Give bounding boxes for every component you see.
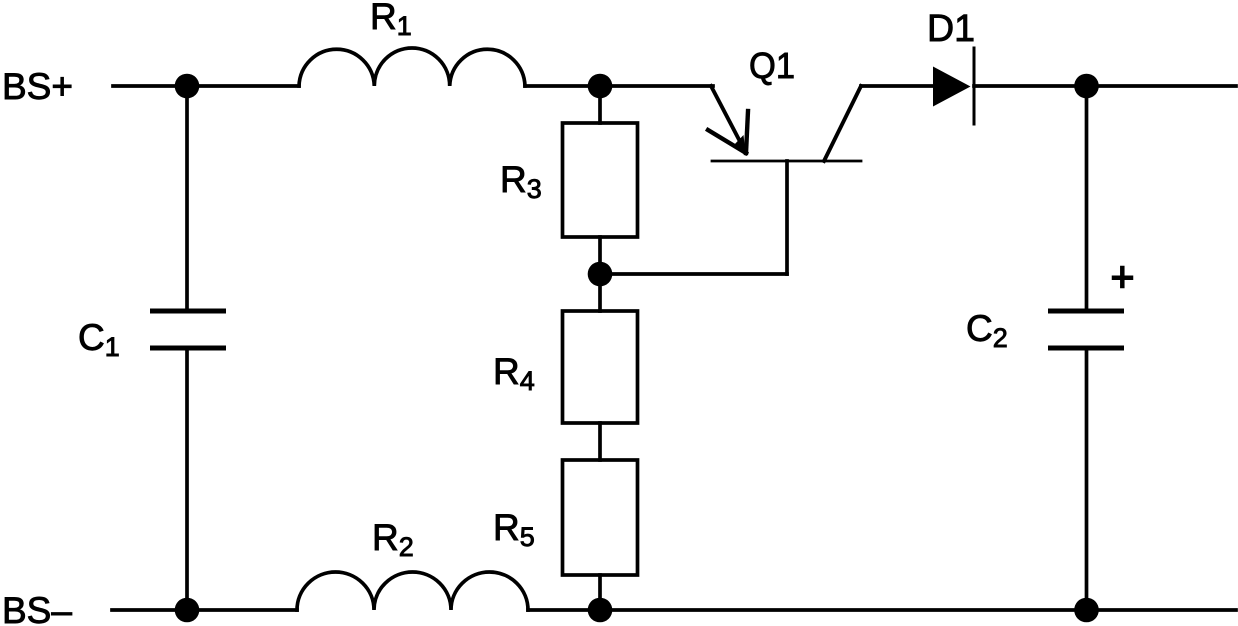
wire diode to right edge [974, 84, 1236, 88]
wire R3 to R4 [598, 237, 602, 311]
node bottom-left junction [175, 598, 200, 623]
resistor R2 (coil symbol) [297, 572, 528, 610]
node top middle junction [588, 74, 613, 99]
capacitor C2 [1048, 309, 1124, 314]
svg-text:D1: D1 [927, 8, 975, 50]
resistor R5 [563, 460, 638, 575]
wire C1 branch upper [185, 86, 189, 311]
svg-text:Q1: Q1 [749, 45, 795, 86]
wire C1 branch lower [185, 348, 189, 610]
transistor Q1 base bar [712, 160, 861, 163]
wire base vertical [785, 161, 789, 274]
node R3-R4 junction [588, 262, 613, 287]
wire bottom rail right segment [528, 608, 1236, 612]
polarity plus sign for C2 [1114, 276, 1131, 281]
wire base horizontal [600, 272, 787, 276]
node bottom right junction [1074, 598, 1099, 623]
node bottom middle junction [588, 598, 613, 623]
capacitor C1 [150, 309, 226, 314]
node top right junction [1074, 74, 1099, 99]
transistor Q1 arrowhead barb left [708, 130, 746, 153]
diode D1 anode triangle [933, 67, 971, 107]
wire top rail left segment [113, 84, 299, 88]
wire node to R3 [598, 86, 602, 123]
transistor Q1 arrowhead barb upper [746, 111, 748, 153]
svg-text:R5: R5 [493, 507, 535, 552]
transistor Q1 collector shaft [711, 86, 746, 153]
svg-text:C2: C2 [966, 308, 1008, 353]
wire R5 to bottom rail [598, 575, 602, 610]
resistor R1 (coil symbol) [299, 48, 525, 86]
svg-text:R4: R4 [493, 351, 535, 396]
node top-left junction [175, 74, 200, 99]
wire C2 branch lower [1085, 348, 1089, 610]
wire R4 to R5 [598, 423, 602, 460]
resistor R4 [563, 311, 638, 423]
svg-text:R1: R1 [370, 0, 412, 41]
svg-text:BS–: BS– [2, 590, 72, 626]
diode D1 cathode bar [973, 48, 976, 124]
svg-text:BS+: BS+ [2, 66, 73, 107]
transistor Q1 arrowhead fill [733, 135, 746, 156]
svg-text:C1: C1 [78, 317, 120, 362]
wire bottom rail left segment [112, 608, 297, 612]
resistor R3 [563, 123, 638, 237]
wire C2 branch upper [1085, 86, 1089, 311]
svg-text:R2: R2 [372, 517, 414, 562]
wire emitter to diode [861, 84, 933, 88]
wire top rail middle segment [525, 84, 713, 88]
svg-text:R3: R3 [500, 159, 542, 204]
transistor Q1 emitter diagonal [824, 86, 861, 161]
